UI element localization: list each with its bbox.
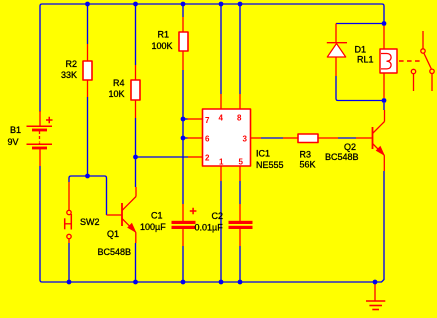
svg-text:7: 7: [205, 116, 210, 125]
svg-text:9V: 9V: [8, 137, 19, 147]
svg-text:IC1: IC1: [256, 149, 270, 159]
IC U1 NE555 pin3 stub: [251, 137, 262, 139]
IC U1 NE555 pin8 stub: [239, 94, 241, 109]
resistor R4 lead top: [135, 65, 137, 80]
resistor R2 lead top: [87, 44, 89, 61]
relay coil RL1 lead bottom: [383, 73, 385, 98]
wire pin1 bottom: [220, 181, 222, 282]
relay contact common terminal: [421, 49, 425, 53]
transistor Q2: [373, 110, 385, 171]
svg-text:56K: 56K: [300, 160, 316, 170]
node 0V / ground junction: [373, 280, 378, 285]
svg-text:5: 5: [239, 158, 244, 167]
svg-text:3: 3: [243, 135, 248, 144]
IC U1 NE555 body: [203, 109, 251, 166]
capacitor C2 lead bottom: [239, 229, 241, 246]
switch SW2: [65, 210, 72, 238]
node pin7 junction: [181, 117, 186, 122]
svg-text:10K: 10K: [109, 89, 125, 99]
battery B1 lead top: [39, 111, 41, 126]
svg-text:D1: D1: [355, 45, 367, 55]
wire below RL1 node: [383, 103, 385, 110]
capacitor C1 polarity +: [190, 208, 197, 215]
svg-text:B1: B1: [10, 125, 21, 135]
wire R4 bottom to Q1 collector: [135, 118, 137, 187]
node V+ / R2 junction: [85, 2, 90, 7]
svg-text:R1: R1: [158, 30, 170, 40]
diode D1: [327, 43, 347, 57]
wire R2 top: [87, 4, 89, 44]
battery B1 lead bottom: [39, 149, 41, 166]
wire node pin2 horizontal: [136, 156, 189, 158]
relay contact arm: [424, 53, 432, 69]
relay contact pole 1 terminal: [411, 69, 415, 73]
resistor R2: [83, 61, 92, 80]
ground stem: [374, 284, 376, 301]
resistor R2 lead bottom: [87, 80, 89, 97]
svg-text:SW2: SW2: [80, 217, 100, 227]
IC U1 NE555 pin1 stub: [220, 166, 222, 181]
transistor Q1: [107, 187, 137, 243]
node V+ / R1 junction: [181, 2, 186, 7]
wire C1 bottom to 0V: [182, 246, 184, 282]
capacitor C1: [172, 221, 196, 229]
svg-text:R4: R4: [113, 78, 125, 88]
IC U1 NE555 pin6 stub: [188, 137, 203, 139]
node 0V / Q1 junction: [133, 280, 138, 285]
wire pin4 top: [220, 4, 222, 94]
resistor R3 lead right: [318, 137, 338, 139]
svg-text:Q2: Q2: [344, 142, 356, 152]
svg-text:NE555: NE555: [256, 160, 284, 170]
node SW2 / R2 junction: [85, 174, 90, 179]
svg-text:Q1: Q1: [107, 229, 119, 239]
svg-text:R3: R3: [300, 150, 312, 160]
svg-text:C1: C1: [151, 211, 163, 221]
wire C2 bottom to 0V: [239, 246, 241, 282]
svg-text:1: 1: [219, 158, 224, 167]
svg-text:4: 4: [219, 114, 224, 123]
svg-text:100K: 100K: [152, 41, 173, 51]
capacitor C1 lead bottom: [182, 229, 184, 246]
wire pin3 to R3: [261, 137, 283, 139]
wire bottom rail 0V: [40, 166, 384, 282]
resistor R1 lead bottom: [182, 51, 184, 70]
diode D1 lead top: [335, 24, 337, 44]
resistor R3: [298, 134, 318, 143]
svg-text:2: 2: [205, 154, 210, 163]
node 0V / C2 junction: [238, 280, 243, 285]
wire D1 bottom: [336, 76, 384, 101]
svg-text:6: 6: [205, 135, 210, 144]
wire Q1 emitter to 0V: [135, 243, 137, 282]
relay coil RL1: [380, 49, 397, 73]
node RL1 bottom junction: [382, 98, 387, 103]
IC U1 NE555 pin4 stub: [220, 94, 222, 109]
svg-text:R2: R2: [66, 59, 78, 69]
switch SW2 lead bottom: [68, 239, 70, 243]
wire R2 bottom to SW2 node: [87, 97, 89, 176]
capacitor C2: [229, 221, 253, 229]
svg-text:RL1: RL1: [357, 55, 374, 65]
node pin6 junction: [181, 136, 186, 141]
wire R1 bottom to C1: [182, 70, 184, 204]
IC U1 NE555 pin5 stub: [239, 166, 241, 181]
node 0V / pin1 junction: [219, 280, 224, 285]
node D1 top junction: [382, 21, 387, 26]
wire pin8 top: [239, 4, 241, 94]
resistor R4 lead bottom: [135, 100, 137, 118]
switch SW2 lead top: [68, 182, 70, 210]
wire top rail V+: [40, 4, 384, 112]
node V+ / pin4 junction: [219, 2, 224, 7]
svg-text:C2: C2: [212, 211, 224, 221]
node 0V / SW2 junction: [67, 280, 72, 285]
wire R1 top: [182, 4, 184, 17]
svg-text:100µF: 100µF: [140, 222, 166, 232]
wire R4 top: [135, 4, 137, 65]
resistor R4: [131, 80, 140, 100]
node V+ / pin8 junction: [238, 2, 243, 7]
relay contact linkage dashed: [399, 60, 421, 62]
node pin2 junction: [133, 155, 138, 160]
ground: [366, 301, 385, 310]
wire SW2 bottom to 0V: [68, 243, 70, 282]
wire pin5 to C2: [239, 181, 241, 204]
transistor Q1 emitter arrow: [127, 223, 136, 233]
svg-text:8: 8: [237, 114, 242, 123]
relay contact pole 2 lead: [431, 74, 433, 91]
IC U1 NE555 pin7 stub: [188, 118, 203, 120]
capacitor C1 lead top: [182, 204, 184, 221]
resistor R3 lead left: [283, 137, 298, 139]
transistor Q2 emitter arrow: [376, 146, 385, 156]
resistor R1 lead top: [182, 17, 184, 32]
transistor Q2 base lead: [356, 137, 372, 139]
svg-text:0.01µF: 0.01µF: [195, 223, 224, 233]
wire R3 to Q2 base: [338, 137, 356, 139]
wire pin6 stub: [183, 137, 188, 139]
relay contact pole 1 lead: [413, 74, 415, 91]
wire pin7 stub: [183, 118, 188, 120]
capacitor C2 lead top: [239, 204, 241, 221]
resistor R1: [179, 32, 188, 51]
svg-text:BC548B: BC548B: [98, 247, 132, 257]
diode D1 lead bottom: [335, 57, 337, 76]
svg-text:33K: 33K: [61, 70, 77, 80]
node V+ / R4 junction: [133, 2, 138, 7]
battery B1: [27, 117, 53, 148]
IC U1 NE555 pin2 stub: [188, 156, 203, 158]
relay contact pole 2 terminal: [430, 69, 434, 73]
relay coil RL1 lead top: [383, 26, 385, 49]
wire SW2 horizontal: [69, 176, 107, 215]
relay contact common lead: [422, 31, 424, 49]
node 0V / C1 junction: [181, 280, 186, 285]
wire D1 top: [336, 23, 384, 25]
svg-text:BC548B: BC548B: [325, 152, 359, 162]
